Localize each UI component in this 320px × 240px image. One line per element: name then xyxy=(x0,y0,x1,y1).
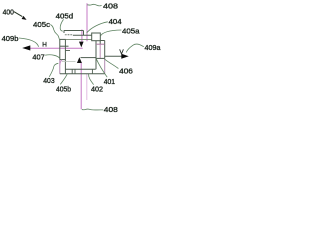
leader 405c xyxy=(50,25,59,41)
top plate (actuator): top edge xyxy=(64,30,84,32)
svg-text:H: H xyxy=(42,42,47,49)
leader 406 xyxy=(104,59,118,69)
svg-text:401: 401 xyxy=(104,79,115,86)
svg-text:404: 404 xyxy=(109,19,122,26)
leader 401 xyxy=(96,59,107,77)
down arrowhead xyxy=(79,42,84,48)
structure: bottom strip ticks xyxy=(72,69,92,73)
svg-text:403: 403 xyxy=(43,78,54,85)
structure: faint inner line xyxy=(62,61,76,63)
structure: right inner vertical (square right edge) xyxy=(95,41,97,70)
svg-text:408: 408 xyxy=(103,3,118,10)
structure: left strip inner vertical xyxy=(64,39,66,73)
svg-text:405a: 405a xyxy=(122,29,140,36)
structure: right strip inner vertical (upper) xyxy=(99,41,101,45)
structure: outer right edge xyxy=(104,41,106,59)
structure: left strip division xyxy=(60,59,66,61)
H axis line (magenta) xyxy=(30,47,83,49)
svg-text:408: 408 xyxy=(104,107,118,114)
structure: right strip division upper (pinkish) xyxy=(96,43,105,45)
top-right tab xyxy=(92,33,101,41)
svg-text:405c: 405c xyxy=(33,22,51,29)
leader 409b xyxy=(19,38,39,47)
arrow shaft (down arrow, magenta tint) xyxy=(81,30,83,42)
leader 408 top (squiggle) xyxy=(87,4,101,6)
structure: left strip top xyxy=(60,38,66,40)
structure: left strip division upper xyxy=(60,45,69,47)
leader 405a xyxy=(101,30,122,36)
svg-text:405d: 405d xyxy=(56,13,74,20)
V arrowhead (black, pointing right) xyxy=(121,54,128,59)
leader 407 xyxy=(45,55,60,59)
svg-text:406: 406 xyxy=(119,68,133,75)
upper inner line xyxy=(66,38,92,40)
structure: right strip division lower xyxy=(96,57,105,59)
structure: bottom edge xyxy=(60,73,105,75)
pink scribble artifact at left strip bottom xyxy=(60,60,62,65)
arrow shaft (up arrow, magenta tint) xyxy=(81,3,87,109)
top plate: right edge xyxy=(83,31,85,36)
svg-text:407: 407 xyxy=(32,55,44,62)
V axis line xyxy=(105,55,123,57)
leader 404 xyxy=(87,22,108,33)
leader 408 bottom (squiggle) xyxy=(82,108,103,111)
V inner line xyxy=(81,57,96,59)
structure: outer left edge xyxy=(59,39,61,59)
axis line 408 (vertical, upper segment) xyxy=(86,3,88,41)
svg-text:409a: 409a xyxy=(145,45,161,52)
leader 400 xyxy=(14,12,22,17)
top plate: left edge stub xyxy=(63,31,65,34)
svg-text:400: 400 xyxy=(3,10,14,17)
structure: right strip inner vertical (lower, pinkish) xyxy=(99,44,101,58)
svg-text:409b: 409b xyxy=(2,36,19,43)
up arrowhead xyxy=(77,57,82,63)
axis line 408 (vertical, lower segment) xyxy=(86,74,88,100)
leader 403 xyxy=(49,63,58,77)
leader 402 xyxy=(89,74,94,85)
H arrowhead (black, pointing left) xyxy=(22,45,30,50)
svg-text:V: V xyxy=(119,49,124,56)
leader 405b xyxy=(60,74,67,84)
structure: small inner stub xyxy=(66,50,70,52)
svg-text:405b: 405b xyxy=(56,86,71,93)
structure: right strip top xyxy=(100,40,105,42)
top plate: bottom edge extending to tab xyxy=(73,34,92,36)
top plate: dotted bottom-left xyxy=(65,34,71,35)
leader 405d xyxy=(60,19,63,31)
svg-text:402: 402 xyxy=(91,87,103,94)
leader 409a xyxy=(126,44,144,52)
leader 400 arrowhead xyxy=(22,16,27,20)
structure: inner bottom line xyxy=(65,68,96,70)
